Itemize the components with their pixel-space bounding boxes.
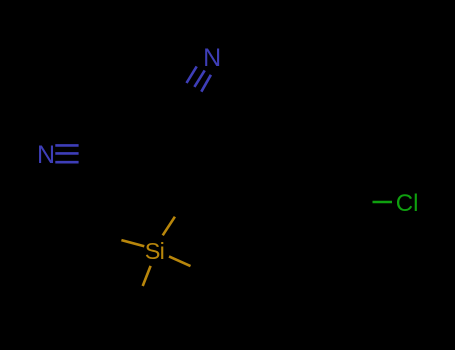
triple bond C3#N2 [55,145,78,162]
atom N2 (left nitrile nitrogen) [37,141,55,169]
atom N1 (top nitrile nitrogen) [203,44,221,72]
svg-text:Cl: Cl [396,190,419,217]
svg-text:N: N [37,141,55,169]
atom Cl (para chlorine) [396,190,419,217]
svg-text:Si: Si [145,238,164,264]
bond Si-CH3 (left methyl) [121,240,144,246]
bond Si-CH3 (lower-left methyl) [143,266,151,286]
atom Si (trimethylsilyl silicon) [145,238,164,264]
svg-text:N: N [203,44,221,72]
bond Cl-C(aryl) [373,201,393,203]
triple bond C2#N1 [187,66,211,91]
bond Si-CH3 (right methyl) [169,256,191,266]
bond Si-C4 (to central carbon, up-right) [163,217,175,236]
